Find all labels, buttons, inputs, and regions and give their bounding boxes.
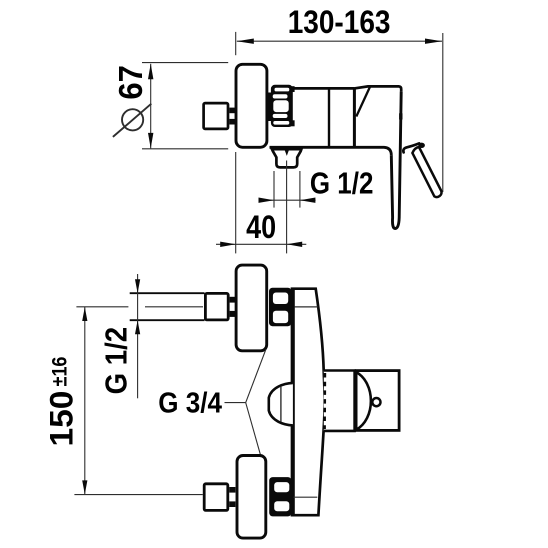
- lower inlet stub: [229, 487, 235, 493]
- mixer body top edge: [294, 86, 402, 91]
- body left edge (heavy): [292, 289, 295, 516]
- svg-text:±16: ±16: [49, 357, 72, 387]
- upper escutcheon: [236, 265, 267, 351]
- lower union nut: [269, 477, 291, 516]
- inlet thread pipe (G 1/2): [130, 292, 205, 294]
- outlet extension line right: [299, 171, 301, 208]
- extension line left (wall plane): [235, 32, 237, 55]
- outlet vee notch: [284, 148, 290, 156]
- body / handle right edge down to lever tip: [391, 92, 401, 229]
- upper inlet block: [205, 293, 228, 320]
- mixer body plate (front): [292, 289, 325, 516]
- inlet block (side view): [204, 103, 228, 129]
- knurled collar ring: [268, 85, 295, 127]
- dimension dia67 line: [148, 64, 153, 149]
- G 1/2 thread dimension line: [135, 274, 140, 398]
- lower escutcheon: [237, 456, 266, 539]
- G 3/4 shower outlet boss: [269, 383, 293, 426]
- handle knob (end view): [356, 371, 399, 431]
- svg-text:40: 40: [246, 209, 276, 245]
- svg-text:G 1/2: G 1/2: [310, 166, 374, 201]
- body bottom edge with corner into lever: [270, 147, 392, 155]
- boss inner edge: [280, 387, 282, 422]
- upper inlet stub: [230, 297, 236, 303]
- G 3/4 leader line: [225, 402, 246, 404]
- svg-text:G 3/4: G 3/4: [158, 388, 222, 420]
- upper union nut: [269, 288, 291, 327]
- extension line flange bottom: [142, 148, 228, 150]
- inlet stub collar: [229, 108, 235, 114]
- body divider line 2 (cartridge): [353, 88, 356, 147]
- handle slanted front edge: [356, 87, 370, 117]
- dimension 130-163 line: [237, 39, 442, 44]
- outlet extension line left: [273, 171, 275, 208]
- svg-text:150: 150: [44, 391, 80, 447]
- dimension 40 line with arrows: [216, 242, 306, 247]
- svg-text:130-163: 130-163: [288, 4, 391, 40]
- dimension 150 line: [82, 307, 87, 494]
- pipe centre line / 150 extension: [76, 306, 128, 308]
- extension line lower inlet centre: [74, 494, 202, 496]
- svg-text:G 1/2: G 1/2: [99, 327, 134, 395]
- diameter symbol: [113, 104, 151, 137]
- leader fork upper: [246, 349, 266, 402]
- lower centre line through body: [294, 496, 318, 498]
- knurl marks on body edge: [323, 373, 326, 429]
- upper centre line through body: [295, 306, 318, 308]
- knob dome arc: [357, 372, 371, 429]
- seam tick on handle right edge: [399, 113, 402, 119]
- lower inlet block: [204, 484, 228, 511]
- extension line flange top: [142, 62, 228, 64]
- G 1/2 dimension line with arrows: [259, 198, 316, 203]
- extension line wall plane lower: [235, 152, 237, 253]
- wall escutcheon flange (side view): [236, 64, 267, 147]
- lever grip (diagonal, side view): [412, 147, 441, 197]
- svg-text:67: 67: [113, 65, 150, 100]
- extension line right (lever tip): [442, 33, 444, 192]
- body divider line 1: [328, 88, 330, 147]
- outlet centre line: [286, 161, 288, 254]
- cartridge cap (front): [324, 371, 355, 431]
- shower outlet nut (side view): [272, 149, 302, 167]
- handle screw: [372, 398, 380, 406]
- leader fork lower: [246, 403, 263, 462]
